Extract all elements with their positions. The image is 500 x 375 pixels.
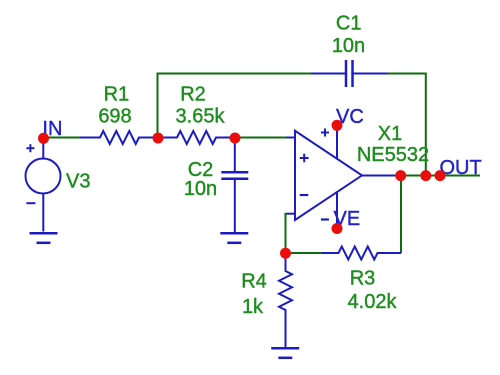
svg-text:3.65k: 3.65k bbox=[176, 105, 226, 127]
op-amp inverting input pin stub bbox=[287, 213, 296, 215]
wire feedback node to R3 bbox=[286, 252, 323, 254]
wire op-amp output to OUT bbox=[396, 175, 481, 177]
resistor R4 value label bbox=[242, 296, 264, 318]
junction R1-R2-feedback bbox=[153, 133, 164, 144]
ground below R4 bbox=[271, 348, 299, 358]
resistor R4 designator label bbox=[241, 271, 267, 293]
ground below C2 bbox=[220, 233, 248, 243]
ground below V3 bbox=[30, 233, 58, 243]
wire R3 right side up to output bbox=[400, 176, 402, 254]
wire inverting input down to feedback node bbox=[285, 213, 287, 253]
op-amp X1 model label bbox=[357, 144, 429, 166]
op-amp output pin lead bbox=[361, 175, 396, 177]
node VC label bbox=[336, 106, 364, 128]
svg-text:C1: C1 bbox=[336, 13, 362, 35]
capacitor C1 designator label bbox=[336, 13, 362, 35]
resistor R2 value label bbox=[176, 105, 226, 127]
svg-text:698: 698 bbox=[98, 105, 131, 127]
op-amp plus mark inside bbox=[300, 154, 309, 163]
svg-text:10n: 10n bbox=[184, 178, 217, 200]
svg-text:R4: R4 bbox=[241, 271, 267, 293]
op-amp VC power pin bbox=[336, 125, 338, 159]
svg-text:R1: R1 bbox=[104, 84, 130, 106]
op-amp non-inverting input pin stub bbox=[287, 137, 296, 139]
svg-text:1k: 1k bbox=[242, 296, 264, 318]
resistor R4 bbox=[279, 253, 292, 347]
op-amp VC plus mark bbox=[321, 129, 329, 137]
resistor R3 value label bbox=[348, 291, 398, 313]
resistor R3 designator label bbox=[350, 268, 376, 290]
node IN label bbox=[42, 118, 62, 140]
svg-text:V3: V3 bbox=[66, 171, 90, 193]
svg-text:R2: R2 bbox=[180, 84, 206, 106]
capacitor C2 designator label bbox=[188, 159, 214, 181]
resistor R3 bbox=[322, 247, 401, 260]
wire C1 right to output junction (top-right corner) bbox=[388, 74, 426, 176]
svg-text:NE5532: NE5532 bbox=[357, 144, 429, 166]
junction output-C1 feedback bbox=[420, 170, 431, 181]
voltage source V3 bbox=[26, 143, 61, 232]
resistor R2 designator label bbox=[180, 84, 206, 106]
capacitor C1 value label bbox=[332, 35, 365, 57]
resistor R1 bbox=[80, 131, 153, 144]
junction output-R3 bbox=[395, 170, 406, 181]
resistor R2 bbox=[163, 131, 230, 144]
resistor R1 value label bbox=[98, 105, 131, 127]
junction node OUT bbox=[435, 170, 446, 181]
resistor R1 designator label bbox=[104, 84, 130, 106]
capacitor C2 value label bbox=[184, 178, 217, 200]
svg-text:X1: X1 bbox=[378, 123, 402, 145]
svg-text:R3: R3 bbox=[350, 268, 376, 290]
op-amp VE power pin bbox=[336, 192, 338, 229]
capacitor C1 bbox=[311, 60, 388, 87]
op-amp X1 triangle bbox=[295, 131, 362, 220]
node OUT label bbox=[440, 157, 482, 179]
op-amp X1 designator label bbox=[378, 123, 402, 145]
op-amp VE minus mark bbox=[321, 218, 329, 220]
capacitor C2 bbox=[221, 138, 248, 232]
junction node IN bbox=[38, 133, 49, 144]
junction feedback-R3-R4 bbox=[280, 248, 291, 259]
wire feedback top-left vertical and top horizontal to C1 bbox=[158, 74, 312, 138]
junction R2-C2-opamp bbox=[230, 133, 241, 144]
node VE label bbox=[334, 208, 361, 230]
svg-text:10n: 10n bbox=[332, 35, 365, 57]
wire R2 to op-amp non-inverting input bbox=[240, 137, 288, 139]
wire IN node to R1 bbox=[44, 137, 81, 139]
op-amp minus mark inside bbox=[300, 194, 309, 196]
svg-text:OUT: OUT bbox=[440, 157, 482, 179]
junction node VC bbox=[332, 120, 343, 131]
V3 value label bbox=[66, 171, 90, 193]
svg-text:4.02k: 4.02k bbox=[348, 291, 398, 313]
junction node VE bbox=[332, 223, 343, 234]
